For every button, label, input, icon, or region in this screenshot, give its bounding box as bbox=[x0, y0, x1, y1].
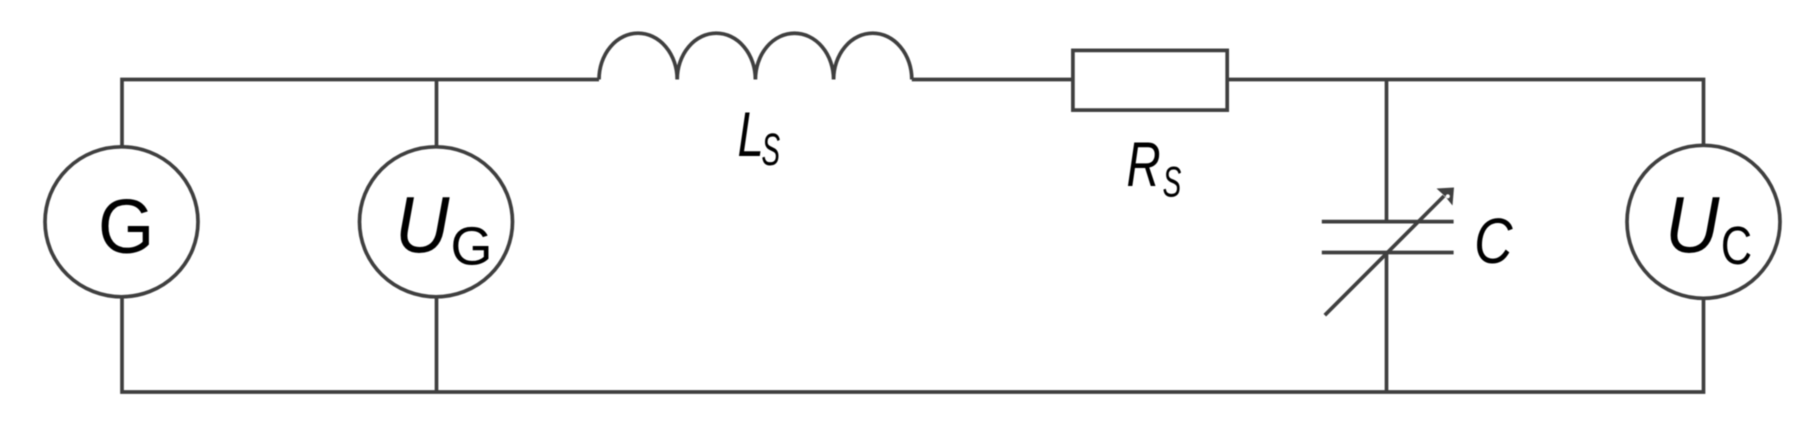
svg-text:L: L bbox=[737, 99, 763, 169]
svg-text:G: G bbox=[98, 183, 154, 270]
svg-text:S: S bbox=[761, 124, 780, 174]
svg-text:R: R bbox=[1127, 129, 1161, 199]
svg-text:S: S bbox=[1163, 157, 1182, 206]
svg-text:U: U bbox=[1665, 181, 1720, 270]
svg-text:G: G bbox=[450, 217, 492, 277]
svg-text:C: C bbox=[1721, 217, 1752, 277]
svg-text:U: U bbox=[395, 181, 450, 270]
svg-text:C: C bbox=[1474, 206, 1513, 277]
